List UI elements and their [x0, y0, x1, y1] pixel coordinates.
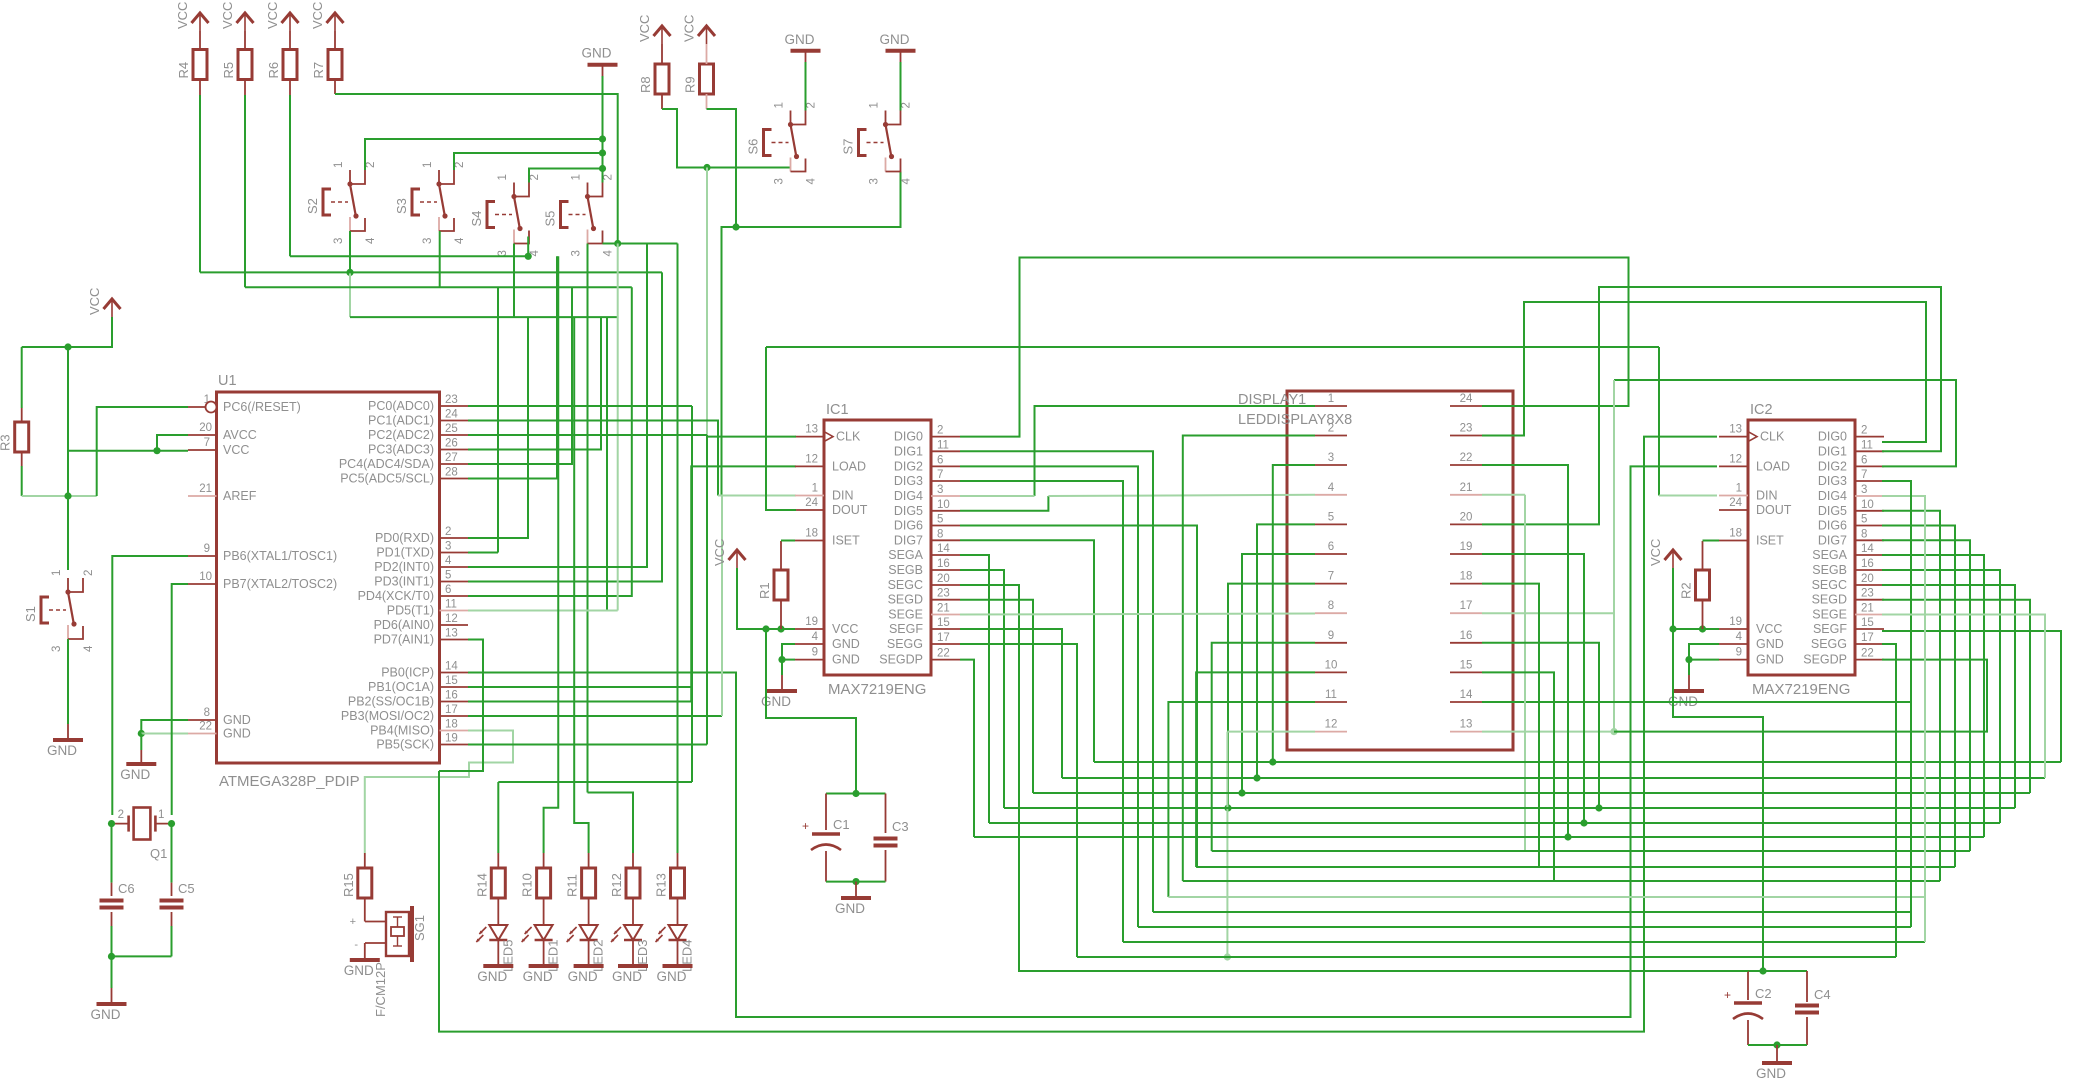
svg-text:7: 7 [937, 469, 943, 481]
svg-text:4: 4 [365, 237, 377, 244]
capacitor C3 [874, 819, 909, 846]
wire to GND [855, 882, 857, 896]
IC1 pin 15 SEGF [931, 628, 960, 630]
svg-text:20: 20 [1460, 511, 1473, 523]
svg-text:GND: GND [832, 637, 860, 651]
svg-text:16: 16 [1460, 630, 1473, 642]
ground below S1 [47, 740, 83, 758]
svg-text:DIN: DIN [1756, 489, 1778, 503]
svg-text:23: 23 [1460, 423, 1473, 435]
junction IC2 GND [1685, 656, 1692, 663]
svg-text:LOAD: LOAD [1756, 459, 1790, 473]
svg-text:21: 21 [1460, 482, 1473, 494]
ground below IC1 [761, 691, 797, 709]
wire DISPLAY pin12 west pale [1227, 731, 1315, 733]
svg-text:18: 18 [445, 719, 458, 731]
wire wrap-around bottom row to IC2 CLK [439, 437, 1717, 1032]
svg-text:17: 17 [1460, 600, 1473, 612]
IC1 pin 16 SEGB [931, 569, 960, 571]
wire LED5 to GND [497, 940, 499, 964]
svg-text:GND: GND [612, 969, 642, 984]
IC2 pin 12 LOAD [1719, 465, 1748, 467]
wire S4 pin4 down [527, 237, 529, 257]
wire U1 XTAL1 to crystal [112, 556, 188, 815]
wire IC1 GND pin4 [782, 644, 795, 660]
svg-text:S4: S4 [469, 211, 484, 227]
svg-text:SEGC: SEGC [1812, 578, 1847, 592]
DISPLAY1 pin 2 [1315, 435, 1347, 437]
wire U1 PB2 to IC1 LOAD [468, 466, 796, 701]
wire R6 top to VCC [289, 31, 291, 50]
svg-text:19: 19 [1729, 616, 1742, 628]
svg-text:17: 17 [445, 704, 458, 716]
wire IC2 VCC to C2/C4 [1673, 629, 1763, 971]
IC2 pin 22 SEGDP [1855, 659, 1884, 661]
svg-text:17: 17 [1861, 632, 1874, 644]
svg-text:20: 20 [199, 422, 212, 434]
wire DISPLAY pin6 riser [1242, 554, 1315, 793]
wire VCC pin row west [68, 450, 157, 452]
wire U1 PC1 to DIN row [468, 421, 718, 496]
wire to GND [140, 734, 142, 751]
VCC supply at IC1 [712, 539, 746, 568]
svg-text:2: 2 [445, 526, 451, 538]
svg-text:R12: R12 [609, 873, 624, 897]
DISPLAY1 pin 13 [1450, 731, 1482, 733]
wire S2 pin2 to GND column [365, 139, 603, 170]
junction S4 pin2 net [599, 165, 606, 172]
DISPLAY1 pin 22 [1450, 464, 1482, 466]
svg-text:PC5(ADC5/SCL): PC5(ADC5/SCL) [340, 472, 434, 486]
IC2 pin 24 DOUT [1719, 509, 1748, 511]
wire pale riser to R8/S6 node [706, 168, 708, 436]
svg-text:21: 21 [937, 603, 950, 615]
svg-text:18: 18 [805, 528, 818, 540]
IC1 pin 6 DIG2 [931, 465, 960, 467]
wire PD5 riser pale [617, 244, 619, 611]
ground above S6 [785, 32, 821, 51]
junction IC1 GND [778, 656, 785, 663]
IC2 pin 20 SEGC [1855, 584, 1884, 586]
svg-text:4: 4 [83, 645, 95, 652]
DISPLAY1 pin 17 [1450, 612, 1482, 614]
wire DIG4 vertical extension pale [1924, 897, 1926, 942]
svg-text:3: 3 [422, 238, 434, 244]
wire SCK riser [706, 435, 708, 745]
IC2 pin 15 SEGF [1855, 628, 1884, 630]
svg-text:9: 9 [812, 647, 818, 659]
svg-text:10: 10 [1861, 499, 1874, 511]
wire DOUT row riser from long row [766, 347, 796, 510]
svg-text:12: 12 [805, 453, 818, 465]
IC1 pin 17 SEGG [931, 643, 960, 645]
wire U1 XTAL2 to crystal [172, 584, 188, 815]
junction S2 pin2 net [599, 135, 606, 142]
svg-text:PC2(ADC2): PC2(ADC2) [368, 428, 434, 442]
svg-text:R2: R2 [1679, 582, 1694, 599]
wire DISPLAY pin11 riser [1168, 702, 1315, 897]
wire LED4 feed riser [677, 244, 679, 854]
wire LED2 feed riser [574, 317, 588, 853]
IC2 pin 10 DIG5 [1855, 510, 1884, 512]
wire IC1 DIG0 to DISPLAY pin24 [960, 258, 1629, 437]
wire bus row SEGG to SEGG [1077, 956, 1896, 958]
svg-text:1: 1 [869, 102, 881, 108]
IC2 pin 2 DIG0 [1855, 436, 1884, 438]
wire IC1 SEGG drop [960, 644, 1077, 957]
svg-text:GND: GND [582, 46, 612, 61]
junction C2/C4 top [1759, 967, 1766, 974]
wire DISPLAY pin23 to IC2 DIG0 [1482, 302, 1926, 442]
svg-text:SEGF: SEGF [1813, 622, 1847, 636]
wire bus row to IC2 SEGC [1004, 807, 2015, 809]
wire IC1 DIN row pale [722, 495, 796, 497]
DISPLAY1 pin 3 [1315, 464, 1347, 466]
wire LED1 feed riser [544, 256, 559, 853]
wire IC1 DIG3 drop [960, 481, 1123, 942]
VCC supply symbol [175, 2, 209, 31]
IC2 pin 11 DIG1 [1855, 450, 1884, 452]
junction reset node [64, 492, 71, 499]
svg-text:ISET: ISET [1756, 534, 1784, 548]
svg-text:24: 24 [445, 409, 458, 421]
junction VCC/S1 column [64, 343, 71, 350]
svg-text:S1: S1 [23, 606, 38, 622]
svg-text:10: 10 [1325, 659, 1338, 671]
junction pin7/bus [1224, 804, 1231, 811]
U1 pin 24 PC1(ADC1) [440, 420, 469, 422]
wire IC1 DIG2 drop [960, 466, 1138, 927]
wire DISPLAY pin10 riser [1196, 672, 1315, 867]
DISPLAY1 pin 20 [1450, 523, 1482, 525]
svg-text:23: 23 [445, 394, 458, 406]
svg-text:2: 2 [454, 162, 466, 168]
svg-text:C5: C5 [178, 881, 195, 896]
wire IC2 GND pin4 [1689, 644, 1719, 660]
resistor R8 [638, 64, 669, 94]
svg-text:1: 1 [1736, 483, 1742, 495]
wire R7 east and down to S5 pin4 node [335, 94, 618, 244]
wire caps common [112, 955, 172, 957]
junction pin6/bus [1238, 789, 1245, 796]
svg-text:22: 22 [199, 721, 212, 733]
wire LED1 to GND [543, 940, 545, 964]
U1 pin 5 PD3(INT1) [440, 581, 469, 583]
svg-text:PD5(T1): PD5(T1) [387, 604, 434, 618]
IC1 pin 12 LOAD [795, 465, 824, 467]
wire S3 pin2 to GND column [454, 153, 603, 170]
wire MOSI riser pale to IC1 DIN [721, 496, 723, 717]
svg-text:9: 9 [1328, 630, 1334, 642]
svg-text:11: 11 [1861, 439, 1873, 451]
wire reset node row [22, 495, 97, 497]
svg-text:1: 1 [422, 162, 434, 168]
wire R5/S3 row east [245, 286, 632, 288]
resistor R1 [757, 570, 788, 600]
svg-text:DIG4: DIG4 [894, 489, 923, 503]
wire U1 PC3 riser [468, 317, 601, 449]
svg-text:GND: GND [344, 963, 374, 978]
svg-text:R11: R11 [565, 874, 580, 897]
wire bus row to IC2 DIG4 [1168, 896, 1925, 898]
wire U1 GND pin22 pale [141, 733, 188, 735]
U1 pin 22 GND [188, 733, 217, 735]
wire R8 to S6 pin3 [662, 109, 791, 168]
svg-text:SEGE: SEGE [888, 608, 923, 622]
resistor R15 [341, 868, 372, 898]
wire speaker minus to GND [364, 943, 366, 958]
svg-text:DIN: DIN [832, 489, 854, 503]
svg-text:3: 3 [445, 541, 451, 553]
svg-text:SEGA: SEGA [1812, 548, 1847, 562]
wire long row DOUT/DIN to IC2 [766, 346, 1659, 348]
wire PD1 riser [497, 287, 499, 552]
svg-text:SEGF: SEGF [889, 622, 923, 636]
wire R11 to LED2 [588, 898, 590, 925]
svg-text:DIG3: DIG3 [1818, 474, 1847, 488]
DISPLAY1 pin 1 [1315, 405, 1347, 407]
svg-text:2: 2 [118, 809, 124, 821]
microcontroller U1 ATMEGA328P_PDIP [217, 373, 440, 790]
wire R13 top stub [677, 853, 679, 868]
svg-text:Q1: Q1 [150, 846, 167, 861]
svg-text:17: 17 [937, 632, 950, 644]
DISPLAY1 pin 5 [1315, 523, 1347, 525]
wire S2 pin3 pale continuation [349, 272, 351, 317]
svg-text:PC3(ADC3): PC3(ADC3) [368, 443, 434, 457]
svg-text:15: 15 [937, 617, 950, 629]
svg-text:LEDDISPLAY8X8: LEDDISPLAY8X8 [1238, 412, 1352, 428]
junction C1/C3 bottom [852, 878, 859, 885]
wire LED2 to GND [588, 940, 590, 964]
wire GND to S6 pin2 [805, 62, 807, 111]
svg-text:C4: C4 [1814, 987, 1831, 1002]
U1 pin 21 AREF [188, 495, 217, 497]
svg-text:PB6(XTAL1/TOSC1): PB6(XTAL1/TOSC1) [223, 549, 337, 563]
polarized capacitor C1 [802, 817, 850, 850]
svg-text:PD6(AIN0): PD6(AIN0) [374, 618, 434, 632]
svg-text:27: 27 [445, 452, 458, 464]
junction C1/C3 top [852, 790, 859, 797]
junction S4 pin4 / R6 row [525, 253, 532, 260]
svg-text:26: 26 [445, 438, 458, 450]
wire row down to PD5 row [606, 317, 608, 610]
wire R3 bottom [21, 466, 23, 496]
svg-text:GND: GND [785, 32, 815, 47]
svg-text:R3: R3 [0, 434, 13, 451]
wire DISPLAY pin20 to IC2 DIG1 [1482, 287, 1941, 524]
ground below C1/C3 [835, 898, 871, 916]
svg-text:C6: C6 [118, 881, 135, 896]
svg-text:3: 3 [1861, 484, 1867, 496]
IC2 pin 5 DIG6 [1855, 525, 1884, 527]
svg-text:2: 2 [365, 162, 377, 168]
svg-text:PD3(INT1): PD3(INT1) [374, 575, 434, 589]
junction R2 bottom [1699, 625, 1706, 632]
switch S7 [841, 102, 913, 184]
U1 pin 8 GND [188, 719, 217, 721]
resistor R10 [520, 868, 551, 898]
switch S2 [305, 162, 377, 244]
ground above S7 [880, 32, 916, 51]
IC2 pin 23 SEGD [1855, 599, 1884, 601]
VCC supply symbol [265, 2, 299, 31]
svg-text:VCC: VCC [87, 288, 102, 315]
U1 pin 6 PD4(XCK/T0) [440, 595, 469, 597]
svg-text:GND: GND [1756, 653, 1784, 667]
svg-text:1: 1 [774, 102, 786, 108]
svg-text:2: 2 [83, 570, 95, 576]
U1 pin 18 PB4(MISO) [440, 730, 469, 732]
LED LED3 [611, 925, 650, 972]
junction pin19 row [1580, 819, 1587, 826]
svg-text:13: 13 [1729, 424, 1742, 436]
svg-text:SEGD: SEGD [1812, 593, 1847, 607]
IC1 pin 13 CLK [795, 436, 824, 438]
switch S1 [23, 570, 95, 652]
svg-text:2: 2 [937, 425, 943, 437]
junction S2/R4 [346, 269, 353, 276]
svg-text:6: 6 [1861, 454, 1867, 466]
wire pin12 riser pale [1226, 732, 1228, 957]
svg-text:SEGA: SEGA [888, 548, 923, 562]
svg-text:AREF: AREF [223, 489, 257, 503]
svg-text:VCC: VCC [832, 622, 858, 636]
wire route to IC2 DIG2 [1614, 380, 1956, 466]
svg-text:1: 1 [158, 809, 164, 821]
svg-text:3: 3 [774, 178, 786, 184]
DISPLAY1 pin 9 [1315, 642, 1347, 644]
svg-text:SEGD: SEGD [888, 593, 923, 607]
svg-text:PD4(XCK/T0): PD4(XCK/T0) [358, 589, 434, 603]
U1 pin 11 PD5(T1) [440, 610, 469, 612]
wire R15 to speaker [364, 898, 366, 922]
U1 pin 25 PC2(ADC2) [440, 434, 469, 436]
svg-text:PB2(SS/OC1B): PB2(SS/OC1B) [348, 695, 434, 709]
wire crystal to C6 [111, 824, 113, 883]
wire pale row to DISPLAY pin4 [1048, 495, 1315, 496]
wire IC1 DIG1 drop [960, 451, 1153, 912]
wire R8 bottom stub [661, 94, 663, 109]
DISPLAY1 pin 6 [1315, 553, 1347, 555]
svg-text:SEGC: SEGC [888, 578, 923, 592]
resistor R14 [474, 868, 505, 898]
wire to U1 RESET pin [97, 407, 188, 496]
capacitor C6 [100, 881, 135, 908]
wire U1 PC5 riser [468, 256, 557, 478]
LED matrix DISPLAY1 LEDDISPLAY8X8 [1238, 391, 1513, 750]
svg-text:DIG2: DIG2 [1818, 459, 1847, 473]
wire R14 top stub [497, 853, 499, 868]
wire U1 PB5 SCK east [468, 744, 707, 746]
U1 pin 27 PC4(ADC4/SDA) [440, 463, 469, 465]
svg-text:SEGDP: SEGDP [1803, 653, 1847, 667]
wire S5 pin4 row east [603, 243, 678, 245]
svg-text:9: 9 [204, 543, 210, 555]
wire LED3 feed jog [588, 793, 634, 854]
wire R10 to LED1 [543, 898, 545, 925]
U1 pin 2 PD0(RXD) [440, 537, 469, 539]
wire S2 pin3 down [349, 231, 351, 272]
IC1 pin 4 GND [795, 643, 824, 645]
wire U1 PC4 riser [468, 287, 572, 464]
U1 pin 23 PC0(ADC0) [440, 405, 469, 407]
DISPLAY1 pin 24 [1450, 405, 1482, 407]
svg-text:AVCC: AVCC [223, 428, 257, 442]
wire R4/S2 row east [200, 271, 662, 273]
svg-text:13: 13 [445, 628, 458, 640]
svg-text:20: 20 [937, 573, 950, 585]
IC1 pin 2 DIG0 [931, 436, 960, 438]
svg-text:4: 4 [1736, 631, 1743, 643]
junction crystal pin2 [108, 820, 115, 827]
capacitor C4 [1795, 987, 1831, 1013]
svg-text:+: + [350, 916, 356, 928]
IC1 pin 10 DIG5 [931, 510, 960, 512]
svg-text:GND: GND [657, 969, 687, 984]
IC2 pin 16 SEGB [1855, 569, 1884, 571]
svg-text:2: 2 [603, 174, 615, 180]
svg-text:PC0(ADC0): PC0(ADC0) [368, 399, 434, 413]
svg-text:21: 21 [199, 483, 212, 495]
svg-text:S6: S6 [746, 139, 761, 155]
U1 pin 3 PD1(TXD) [440, 552, 469, 554]
svg-text:5: 5 [1328, 511, 1334, 523]
svg-text:28: 28 [445, 467, 458, 479]
wire crystal to C5 [171, 824, 173, 883]
wire S7 pin4 row to IC1 DIN riser [722, 172, 901, 496]
wire GND column to switch pins 2 [602, 76, 604, 183]
wire IC1 SEGD drop [960, 600, 1033, 793]
resistor R9 [683, 64, 714, 94]
svg-text:2: 2 [806, 102, 818, 108]
svg-text:8: 8 [1861, 528, 1867, 540]
resistor R4 [176, 50, 207, 80]
ground below LED5 [477, 966, 513, 984]
wire R6 row to S4 pin4 [290, 255, 528, 257]
resistor R6 [266, 50, 297, 80]
svg-text:SEGE: SEGE [1812, 608, 1847, 622]
svg-text:R10: R10 [520, 873, 535, 897]
svg-text:12: 12 [445, 613, 458, 625]
svg-text:VCC: VCC [265, 2, 280, 29]
svg-text:R1: R1 [757, 582, 772, 599]
IC1 pin 7 DIG3 [931, 480, 960, 482]
svg-text:GND: GND [477, 969, 507, 984]
svg-text:12: 12 [1729, 453, 1742, 465]
LED LED4 [656, 925, 695, 972]
svg-text:GND: GND [832, 653, 860, 667]
crystal Q1 [112, 808, 172, 862]
svg-text:8: 8 [937, 528, 943, 540]
LED LED1 [522, 925, 561, 972]
svg-text:3: 3 [937, 484, 943, 496]
wire R9 down [707, 109, 737, 227]
svg-text:1: 1 [51, 570, 63, 576]
svg-text:8: 8 [1328, 600, 1334, 612]
wire to GND [781, 660, 783, 675]
wire U1 PD1 east [468, 552, 498, 554]
svg-text:23: 23 [937, 588, 950, 600]
svg-text:3: 3 [333, 238, 345, 244]
svg-text:S7: S7 [841, 139, 856, 155]
LED LED2 [567, 925, 606, 972]
wire VCC column to S1 [67, 347, 69, 570]
svg-text:4: 4 [1328, 482, 1335, 494]
DISPLAY1 pin 8 [1315, 612, 1347, 614]
IC2 pin 14 SEGA [1855, 554, 1884, 556]
resistor R12 [609, 868, 640, 898]
